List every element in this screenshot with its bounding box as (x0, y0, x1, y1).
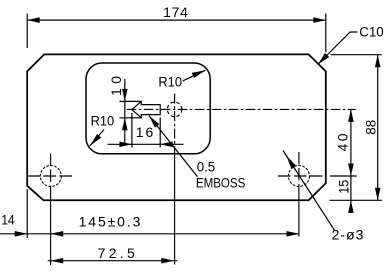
hole left vertical centerline / extension (50, 154, 52, 266)
R10 top text (158, 74, 182, 90)
svg-text:0.5: 0.5 (197, 159, 216, 175)
dim 16 extension left (arrow tip) (131, 113, 133, 148)
leader R10 left (90, 130, 104, 146)
dim 174 line (27, 17, 326, 23)
svg-text:16: 16 (136, 124, 154, 140)
dim 10 extension bottom (120, 117, 142, 119)
EMBOSS text (196, 174, 245, 190)
leader 0.5 EMBOSS (149, 116, 198, 177)
svg-text:174: 174 (163, 4, 188, 20)
2-diam3 text (332, 226, 364, 242)
svg-text:2-ø3: 2-ø3 (332, 226, 364, 242)
dim 40/15 extension at hole centerline (330, 175, 357, 177)
hole right vertical centerline / extension (298, 152, 300, 237)
C10 leader (318, 32, 357, 64)
hole left (40, 166, 61, 187)
dim 10 line (emboss arrow head height) (122, 79, 128, 144)
hole left horizontal centerline (28, 175, 75, 177)
dim 40 and 15 shared line (348, 109, 354, 213)
hole right (288, 166, 309, 187)
C10 text (359, 23, 384, 39)
dim 88 text (rotated) (362, 119, 378, 134)
svg-text:15: 15 (336, 180, 352, 194)
hole right horizontal centerline (278, 175, 324, 177)
leader R10 top right (183, 70, 206, 81)
dim 16 line (108, 142, 184, 148)
dim 15 text (rotated) (336, 180, 352, 194)
svg-text:R10: R10 (91, 112, 115, 128)
dim 174 extension right (325, 14, 327, 53)
0.5 text (197, 159, 216, 175)
svg-text:88: 88 (362, 119, 378, 134)
svg-text:R10: R10 (158, 74, 182, 90)
dim 88 extension top (331, 54, 382, 56)
dim 72.5 text (98, 245, 135, 261)
dim 10 extension top (120, 100, 142, 102)
dim 10 text (rotated) (108, 76, 124, 96)
svg-text:EMBOSS: EMBOSS (196, 174, 245, 190)
dim 16 text (136, 124, 154, 140)
dim 72.5 line (48, 258, 178, 264)
leader 2-diam3 (283, 151, 335, 231)
dim 88 line (375, 55, 381, 201)
vertical centerline through emboss circle (174, 94, 176, 265)
dim 40 text (rotated) (335, 133, 351, 151)
plate outline (chamfered C10 corners) (27, 54, 326, 200)
emboss block arrow (132, 101, 160, 117)
dim 174 text (163, 4, 188, 20)
dim 14 extension (plate left edge) (26, 189, 28, 238)
dim 14 text (1, 211, 15, 227)
dim 174 extension left (26, 14, 28, 49)
R10 left text (91, 112, 115, 128)
horizontal centerline through cutout (127, 108, 356, 110)
svg-text:C10: C10 (359, 23, 384, 39)
inner cutout rounded rect R10 (86, 63, 210, 154)
svg-text:14: 14 (1, 211, 15, 227)
dim 88 extension bottom (330, 199, 383, 201)
svg-text:72.5: 72.5 (98, 245, 135, 261)
dim 14 and 145 shared line (0, 231, 299, 237)
dim 145 text (79, 213, 141, 229)
emboss circle (dashed) (167, 102, 182, 117)
dim 16 extension right (arrow tail) (159, 118, 161, 148)
